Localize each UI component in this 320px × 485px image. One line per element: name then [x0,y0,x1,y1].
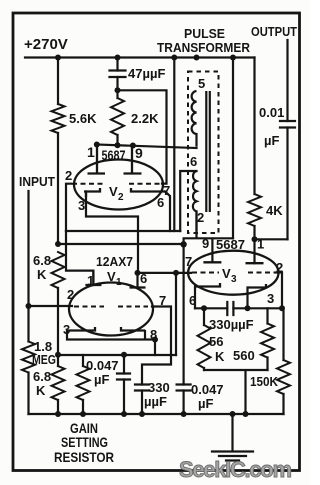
svg-text:6.8: 6.8 [33,369,51,384]
svg-text:1: 1 [116,277,122,288]
wire transformer pin6 drop [180,171,196,231]
resistor R2 2.2K [111,98,124,135]
wire output line [286,40,288,239]
capacitor C1 47uuF [110,71,126,78]
wire riser x176 to cathode bus [175,273,177,355]
wire drop x183.6 to 0.047 cap [183,244,185,414]
svg-text:330: 330 [148,380,170,395]
transformer core [206,91,210,212]
svg-text:2: 2 [197,210,204,225]
resistor R1 5.6K [52,104,65,133]
wire long horizontal H4 [58,243,184,245]
resistor R8 56K [198,325,211,368]
svg-text:V: V [222,266,231,281]
svg-text:V: V [107,269,116,284]
wire V2 pin2 grid coupling [66,184,71,231]
svg-text:V: V [109,184,118,199]
wire 4K bottom to V3 plate pin1 [253,226,255,263]
svg-text:TRANSFORMER: TRANSFORMER [157,40,251,55]
wire node 47uuF to V2 grid pin7 [118,90,167,183]
svg-text:5687: 5687 [102,147,126,163]
wire gain resistor leads [82,355,84,414]
wire 47uuF branch [116,58,118,91]
svg-text:6: 6 [140,271,147,286]
svg-text:SeekIC.com: SeekIC.com [179,457,292,482]
wire cross-couple horizontal y231 [66,230,180,232]
svg-text:OUTPUT: OUTPUT [251,24,297,39]
resistor R6 6.8K lower [52,366,65,400]
wire jog to transformer pin2 and y238 header [184,212,233,263]
wire 150K leads [282,308,284,414]
wire rail drop x233 [232,58,234,239]
tube V3 5687 [188,251,278,295]
wire +270V rail [25,56,255,58]
svg-text:8: 8 [150,327,157,342]
svg-text:7: 7 [185,254,192,269]
wire V3 cathode legs [195,287,248,309]
svg-text:2: 2 [67,287,74,302]
svg-text:µF: µF [94,372,109,387]
wire rail drop x174 [173,58,175,232]
svg-text:K: K [36,383,46,398]
wire V1 plate1 to V2 grid coupling [66,231,93,285]
svg-text:9: 9 [202,236,209,251]
resistor R9 560 [261,324,274,358]
svg-text:6: 6 [190,154,197,169]
tube V1 12AX7 [67,271,153,336]
wire 56K leads [203,308,205,370]
svg-text:330µµF: 330µµF [209,317,254,332]
svg-text:MEG: MEG [32,352,56,367]
wire rail corner down to 4K [253,58,255,195]
wire 5.6K branch from rail [57,58,59,245]
svg-text:1: 1 [257,237,264,252]
tube V2 5687 [72,145,165,210]
resistor R5 1.8MEG [22,342,35,373]
transformer secondary winding pin6-pin2 [193,171,197,231]
capacitor C6 330uuF cathode coupling [227,302,233,315]
wire V2 pin3 cathode to grid bus [86,192,138,273]
svg-text:PULSE: PULSE [184,26,225,41]
wire V1 cathode wire y339 [67,331,155,355]
capacitor C4 330uuF left [135,385,149,391]
svg-text:5687: 5687 [216,237,245,252]
svg-text:3: 3 [63,322,70,337]
wire cathode resistor bottom y370 [204,370,268,414]
svg-text:56: 56 [209,334,223,349]
svg-text:0.01: 0.01 [259,105,284,120]
svg-text:150K: 150K [250,374,279,389]
capacitor C5 0.047uF middle [177,385,191,391]
svg-text:0.047: 0.047 [191,382,224,397]
capacitor C3 0.047uF left [117,374,130,380]
svg-text:7: 7 [159,293,166,308]
svg-text:4K: 4K [266,203,283,218]
resistor R4 6.8K upper [52,252,65,288]
svg-text:2: 2 [65,168,72,183]
wire V2 pin6 cathode leg [165,192,170,232]
svg-text:3: 3 [78,198,85,213]
wire INPUT stub [27,191,29,306]
wire V3 cathode bus y308 [195,307,282,309]
resistor R7 gain setting [77,366,90,400]
resistor R10 150K [277,360,290,394]
wire 1.8MEG branch [27,306,29,414]
wire V1 plate6 drop [136,272,138,288]
wire 330uuF left bottom [141,391,143,415]
wire V3 pin2 grid [276,273,282,309]
svg-text:3: 3 [267,291,274,306]
svg-text:1: 1 [87,273,94,288]
svg-text:9: 9 [135,145,143,161]
wire 2.2K to plate rail [116,90,118,145]
ground [212,414,253,461]
svg-text:0.047: 0.047 [86,358,119,373]
svg-text:6: 6 [157,195,164,210]
capacitor C2 0.01uF [280,121,295,128]
svg-text:47µµF: 47µµF [128,66,165,81]
svg-text:µF: µF [198,396,213,411]
svg-text:560: 560 [233,348,255,363]
svg-text:µF: µF [264,133,279,148]
wire grid bus y273 [138,272,191,274]
svg-text:SETTING: SETTING [61,434,108,450]
resistor R3 4K [248,194,261,226]
svg-text:2: 2 [118,192,124,203]
transformer T1 dashed box [188,72,219,234]
svg-text:K: K [215,349,225,364]
svg-text:3: 3 [231,274,237,285]
transformer primary winding pin5 [192,91,210,231]
wire input grid wire y306 [29,305,73,307]
svg-text:12AX7: 12AX7 [96,254,133,269]
svg-text:6.8: 6.8 [33,253,51,268]
wire 6.8K upper branch [57,288,59,355]
svg-text:5: 5 [198,76,205,91]
wire 0.047 left leads [123,355,125,415]
wire V1 pin7 grid staircase [142,307,171,385]
svg-text:2.2K: 2.2K [131,111,159,126]
svg-text:2: 2 [276,260,283,275]
wire 560 leads [266,308,268,370]
svg-text:µµF: µµF [144,394,167,409]
svg-text:INPUT: INPUT [19,174,55,189]
wire cathode bus y355 [58,354,176,356]
wire V2 plate wire to transformer primary bottom [96,145,197,149]
wire output junction [255,238,288,240]
svg-text:5.6K: 5.6K [69,111,97,126]
svg-text:1: 1 [87,144,95,160]
svg-text:K: K [37,267,47,282]
wire 6.8K lower leads [57,355,59,414]
svg-text:RESISTOR: RESISTOR [54,449,114,465]
wire bottom ground rail [29,413,284,415]
svg-text:6: 6 [189,293,196,308]
svg-text:+270V: +270V [24,36,68,53]
